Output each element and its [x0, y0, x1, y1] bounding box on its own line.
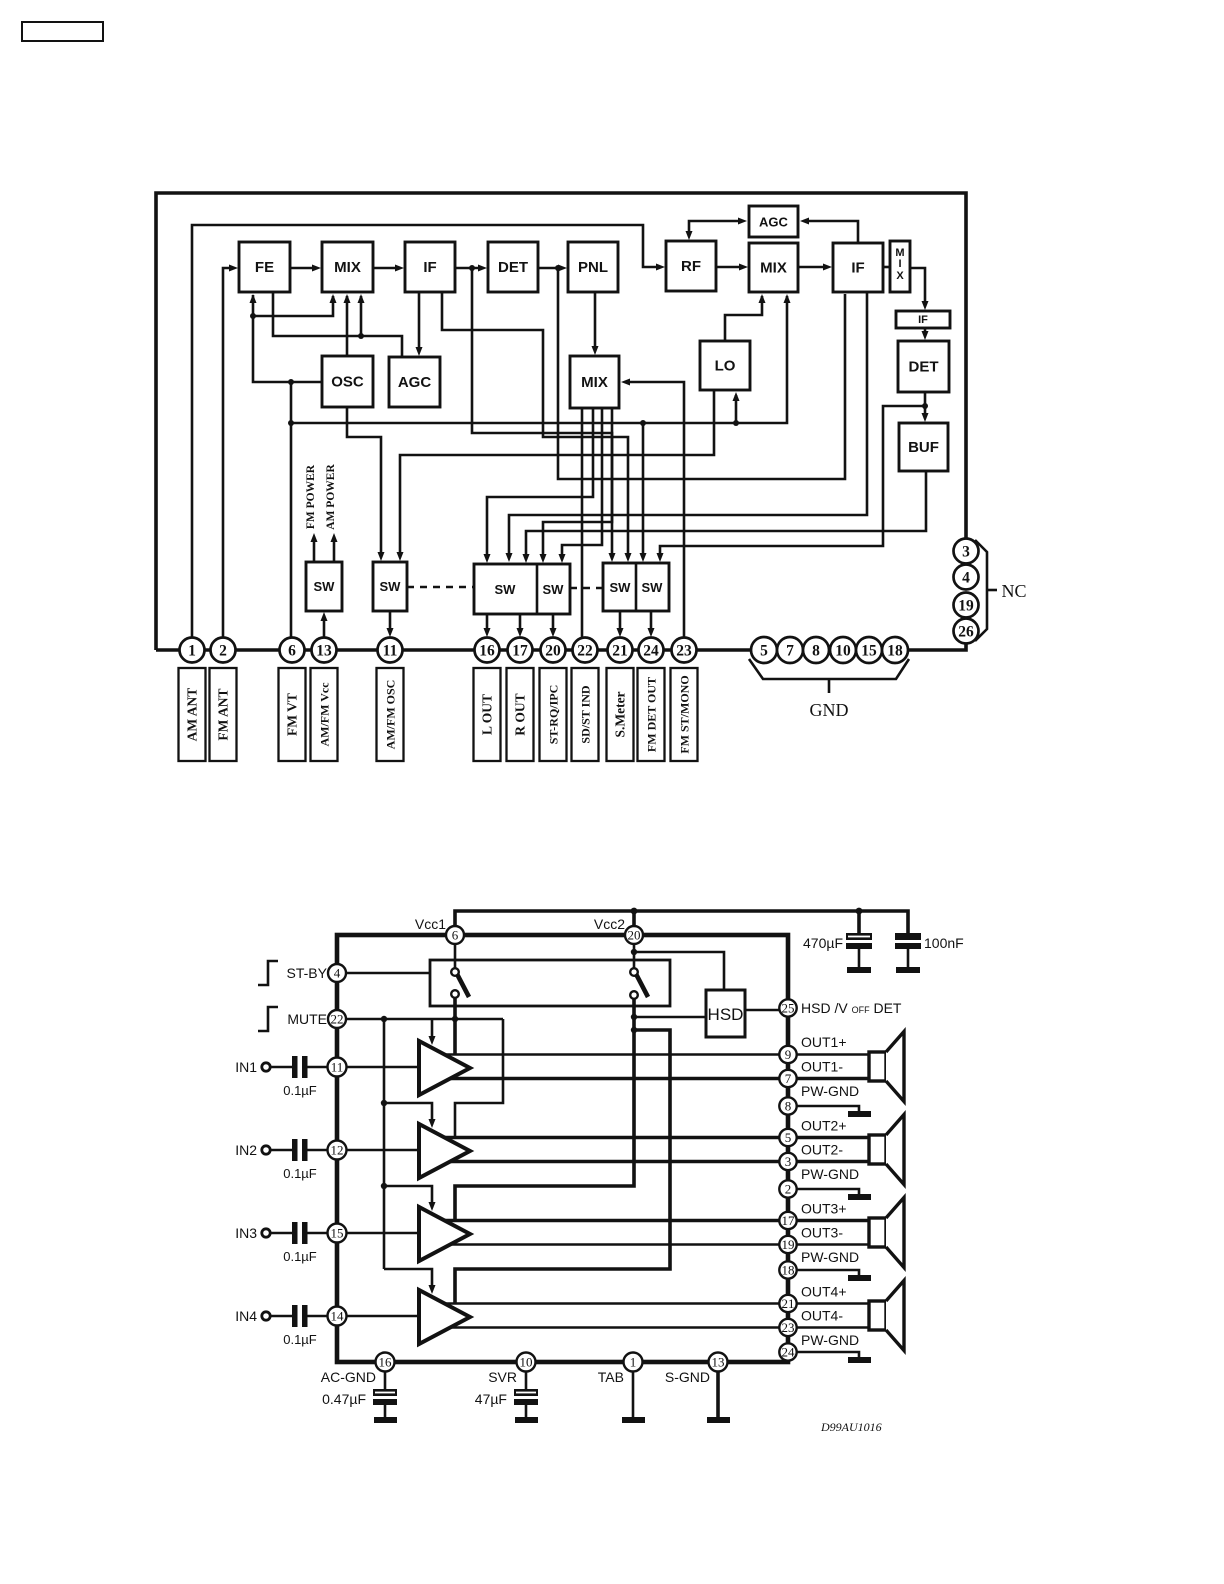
svg-text:IF: IF — [851, 260, 864, 277]
svg-text:0.1µF: 0.1µF — [283, 1332, 317, 1347]
wire stage step to amp2 — [455, 1019, 503, 1138]
wire pin to speaker 1 minus — [797, 1077, 871, 1081]
wire MIX4 bottom 3 to SW3 — [559, 408, 603, 563]
pin 11 — [378, 638, 403, 663]
S-GND ground — [707, 1371, 730, 1423]
svg-text:470µF: 470µF — [803, 935, 843, 951]
svg-text:IN2: IN2 — [235, 1142, 257, 1158]
op-amp A2 — [419, 1124, 470, 1178]
pin 11 — [328, 1058, 347, 1077]
wire ST-BY to switch box — [346, 972, 430, 975]
svg-text:IF: IF — [918, 314, 928, 326]
pin 20 — [541, 638, 566, 663]
svg-text:FM ANT: FM ANT — [216, 688, 231, 740]
svg-text:6: 6 — [452, 928, 459, 943]
supply rail Vcc — [455, 908, 908, 933]
block OSC — [322, 356, 373, 407]
svg-text:PW-GND: PW-GND — [801, 1166, 859, 1182]
svg-text:13: 13 — [316, 643, 332, 660]
wire SW3 to pin16 — [484, 614, 491, 637]
svg-text:AGC: AGC — [398, 374, 432, 391]
wire IF1 to DET1 with junction — [455, 265, 487, 272]
wire OUT1+ — [444, 1053, 780, 1056]
svg-text:HSD /V OFF DET: HSD /V OFF DET — [801, 1000, 902, 1016]
capacitor 0.1uF input 1 — [283, 1056, 328, 1098]
capacitor 100nF — [895, 933, 921, 973]
wire pin1 AM ANT to RF input — [192, 225, 665, 640]
HSD block — [706, 990, 745, 1037]
svg-text:PW-GND: PW-GND — [801, 1332, 859, 1348]
wire input pin to amp3 — [347, 1232, 420, 1235]
wire OUT3- — [450, 1243, 780, 1246]
svg-text:4: 4 — [334, 966, 341, 981]
wire SW3 to pin17 — [517, 614, 524, 637]
pin label R OUT — [507, 668, 534, 761]
wire to HSD top — [631, 949, 724, 990]
pin 13 — [709, 1353, 728, 1372]
pin label FM DET OUT — [638, 668, 665, 761]
mute tap arrow amp4 — [384, 1269, 436, 1294]
pin 5 (GND) — [751, 637, 777, 663]
wire pin to speaker 3 plus — [797, 1219, 871, 1223]
svg-text:20: 20 — [545, 643, 561, 660]
pin label L OUT — [474, 668, 501, 761]
ST-BY input symbol — [258, 961, 278, 985]
pin 18 (GND) — [882, 637, 908, 663]
svg-text:FM DET OUT: FM DET OUT — [645, 677, 659, 752]
wire SW4 to pin24 — [648, 611, 655, 637]
svg-text:BUF: BUF — [908, 439, 939, 456]
svg-text:19: 19 — [958, 598, 974, 615]
svg-text:RF: RF — [681, 258, 701, 275]
NC bracket — [975, 540, 997, 641]
wire SW4 to pin21 — [617, 611, 624, 637]
svg-text:IN4: IN4 — [235, 1308, 257, 1324]
pin 8 — [779, 1097, 796, 1114]
op-amp A4 — [419, 1290, 470, 1344]
wire RF to MIX2 — [716, 264, 748, 271]
block LO — [700, 341, 750, 390]
capacitor 0.1uF input 4 — [283, 1305, 328, 1347]
svg-text:15: 15 — [331, 1226, 344, 1241]
svg-text:SD/ST IND: SD/ST IND — [579, 685, 593, 743]
dashed link SW3 to SW4 — [570, 587, 603, 590]
svg-text:GND: GND — [810, 700, 849, 720]
svg-text:OSC: OSC — [331, 374, 364, 391]
svg-text:2: 2 — [219, 643, 227, 660]
svg-text:MIX: MIX — [334, 259, 361, 276]
block IF3 small — [896, 311, 950, 328]
wire input pin to amp1 — [347, 1066, 420, 1069]
capacitor 0.47uF — [373, 1371, 397, 1423]
svg-text:5: 5 — [760, 643, 768, 660]
svg-text:MUTE: MUTE — [287, 1011, 327, 1027]
wire IF1 bottom to AGC1 — [416, 292, 423, 356]
pin 17 — [779, 1212, 796, 1229]
wire MIX1 to IF1 — [373, 265, 404, 272]
wire OUT4+ — [444, 1302, 780, 1305]
speaker 1 — [869, 1032, 904, 1102]
wire DET2 to BUF with junction — [922, 392, 929, 422]
pin 6 — [280, 638, 305, 663]
svg-text:18: 18 — [782, 1263, 795, 1278]
svg-text:11: 11 — [383, 643, 398, 660]
wire pin6 FM VT up to OSC rail — [288, 382, 294, 640]
svg-text:ST-BY: ST-BY — [287, 965, 328, 981]
switch SW3 double cell — [474, 564, 570, 614]
svg-text:1: 1 — [630, 1355, 637, 1370]
capacitor 0.1uF input 2 — [283, 1139, 328, 1181]
svg-text:OUT1+: OUT1+ — [801, 1034, 847, 1050]
pin 1 — [624, 1353, 643, 1372]
wire FE bottom right to AGC1 top — [273, 292, 402, 357]
wire IF2 top to AGC2 right — [800, 218, 858, 244]
header label box (empty) — [22, 22, 103, 41]
wire pin13 to SW1 — [321, 612, 328, 640]
svg-text:R OUT: R OUT — [513, 693, 528, 735]
svg-text:24: 24 — [643, 643, 659, 660]
block IF2 — [833, 243, 883, 292]
svg-text:47µF: 47µF — [475, 1391, 507, 1407]
wire AGC2 left loop to RF top — [686, 218, 748, 241]
power ground stub — [797, 1270, 871, 1281]
svg-text:MIX: MIX — [760, 260, 787, 277]
pin 15 (GND) — [856, 637, 882, 663]
pin 18 — [779, 1261, 796, 1278]
pin 23 — [672, 638, 697, 663]
pin 17 — [508, 638, 533, 663]
svg-text:SW: SW — [314, 579, 336, 594]
pin 15 — [328, 1224, 347, 1243]
wire MIX4 bottom 1 to pin22 SD/ST IND — [581, 408, 584, 638]
svg-text:0.1µF: 0.1µF — [283, 1083, 317, 1098]
block MIX2 — [749, 243, 798, 292]
svg-text:PW-GND: PW-GND — [801, 1249, 859, 1265]
wire FE to MIX1 — [290, 265, 321, 272]
mute tap arrow amp3 — [384, 1186, 436, 1211]
input terminal IN1 — [235, 1059, 292, 1075]
pin label S.Meter — [607, 668, 634, 761]
pin 21 — [608, 638, 633, 663]
svg-text:8: 8 — [785, 1099, 792, 1114]
pin 24 — [639, 638, 664, 663]
wire pin to speaker 2 plus — [797, 1136, 871, 1140]
svg-text:1: 1 — [188, 643, 196, 660]
pin 5 — [779, 1129, 796, 1146]
pin label ST-RQ/IPC — [540, 668, 567, 761]
block MIX4 center — [570, 356, 619, 408]
pin label AM ANT — [179, 668, 206, 761]
wire MIX2 to IF2 — [798, 264, 832, 271]
pin 21 — [779, 1295, 796, 1312]
wire MIX1 bottom to OSC top — [344, 294, 351, 356]
wire to HSD left — [634, 1016, 706, 1019]
pin 25 — [779, 999, 796, 1016]
wire IF1 junction to SW4 — [472, 268, 616, 562]
svg-text:AC-GND: AC-GND — [321, 1369, 376, 1385]
pin 6 — [446, 926, 464, 944]
wire input pin to amp4 — [347, 1315, 420, 1318]
svg-text:3: 3 — [962, 544, 970, 561]
pin 9 — [779, 1046, 796, 1063]
svg-text:16: 16 — [379, 1355, 393, 1370]
svg-text:DET: DET — [909, 359, 939, 376]
speaker 2 — [869, 1115, 904, 1185]
svg-text:OUT2-: OUT2- — [801, 1142, 843, 1158]
block AGC1 — [389, 357, 440, 407]
svg-text:24: 24 — [782, 1345, 796, 1360]
GND brace — [749, 659, 909, 693]
svg-text:NC: NC — [1001, 581, 1026, 601]
wire MIX3 out to IF3 — [910, 268, 929, 310]
wire pin to speaker 4 minus — [797, 1326, 871, 1329]
svg-text:SW: SW — [610, 580, 632, 595]
pin 22 — [573, 638, 598, 663]
wire OUT4- — [450, 1326, 780, 1329]
svg-text:SVR: SVR — [488, 1369, 517, 1385]
wire BUF output to SW3 — [523, 471, 927, 563]
svg-text:16: 16 — [479, 643, 495, 660]
block AGC2 — [749, 206, 798, 237]
pin 3 (NC) — [954, 539, 979, 564]
AM POWER output arrow — [331, 533, 338, 562]
wire PNL to MIX4 — [592, 292, 599, 355]
svg-text:OUT3-: OUT3- — [801, 1225, 843, 1241]
pin 12 — [328, 1141, 347, 1160]
svg-text:10: 10 — [835, 643, 851, 660]
TAB ground — [622, 1371, 645, 1423]
power ground stub — [797, 1189, 871, 1200]
pin 24 — [779, 1343, 796, 1360]
wire OUT2+ — [444, 1136, 780, 1140]
svg-text:FE: FE — [255, 259, 274, 276]
wire SW2 to pin11 — [387, 611, 394, 637]
svg-text:12: 12 — [331, 1143, 344, 1158]
svg-text:LO: LO — [715, 358, 736, 375]
mute rail — [381, 1019, 387, 1269]
wire IF1 bottom to SW4 — [442, 292, 632, 562]
switch lever 2 — [630, 944, 648, 999]
pin 4 — [328, 964, 346, 982]
wire OSC bottom to SW2 top left — [347, 407, 385, 561]
pin 10 (GND) — [830, 637, 856, 663]
svg-text:0.1µF: 0.1µF — [283, 1166, 317, 1181]
svg-text:14: 14 — [331, 1309, 345, 1324]
wire pin to speaker 4 plus — [797, 1302, 871, 1305]
pin 7 — [779, 1070, 796, 1087]
svg-text:0.1µF: 0.1µF — [283, 1249, 317, 1264]
pin 4 (NC) — [954, 565, 979, 590]
op-amp A1 — [419, 1041, 470, 1095]
svg-text:AM/FM Vcc: AM/FM Vcc — [318, 682, 332, 747]
svg-text:FM VT: FM VT — [285, 693, 300, 736]
svg-text:23: 23 — [676, 643, 692, 660]
wire MIX4 bottom 4 to SW3 — [540, 408, 613, 563]
svg-text:OUT2+: OUT2+ — [801, 1118, 847, 1134]
pin 19 (NC) — [954, 593, 979, 618]
svg-text:20: 20 — [628, 928, 641, 943]
pin label AM/FM OSC — [377, 668, 404, 761]
svg-text:AM ANT: AM ANT — [185, 688, 200, 742]
svg-text:ST-RQ/IPC: ST-RQ/IPC — [547, 685, 561, 745]
svg-text:21: 21 — [612, 643, 628, 660]
svg-text:19: 19 — [782, 1237, 795, 1252]
IC boundary rectangle (tuner block diagram) — [156, 193, 966, 650]
wire FE bottom to OSC left with junctions — [250, 294, 323, 385]
svg-text:L OUT: L OUT — [480, 694, 495, 735]
pin 26 (NC) — [954, 619, 979, 644]
speaker 3 — [869, 1198, 904, 1268]
svg-text:17: 17 — [512, 643, 528, 660]
pin 10 — [517, 1353, 536, 1372]
wire OUT1- — [450, 1077, 780, 1081]
svg-text:17: 17 — [782, 1213, 796, 1228]
svg-text:AGC: AGC — [759, 215, 789, 230]
wire LO top to MIX2 bottom — [725, 294, 766, 341]
svg-text:PNL: PNL — [578, 259, 608, 276]
wire SW3 to pin20 — [550, 614, 557, 637]
svg-text:SW: SW — [380, 579, 402, 594]
wire OUT2- — [450, 1160, 780, 1164]
svg-text:3: 3 — [785, 1154, 792, 1169]
wire switch2 branch to amp4 — [455, 1030, 670, 1304]
block BUF — [899, 423, 948, 471]
svg-text:MIX: MIX — [581, 374, 608, 391]
svg-text:OUT3+: OUT3+ — [801, 1201, 847, 1217]
block DET2 — [898, 341, 949, 392]
switch box — [430, 960, 670, 1006]
svg-text:26: 26 — [958, 624, 974, 641]
wire pin2 FM ANT to FE input — [223, 265, 238, 641]
svg-text:4: 4 — [962, 570, 970, 587]
svg-text:2: 2 — [785, 1182, 792, 1197]
svg-text:IN3: IN3 — [235, 1225, 257, 1241]
svg-text:I: I — [898, 258, 901, 270]
block FE — [239, 242, 290, 292]
op-amp A3 — [419, 1207, 470, 1261]
switch SW2 — [373, 562, 407, 611]
input terminal IN4 — [235, 1308, 292, 1324]
mute tap arrow amp2 — [384, 1103, 436, 1128]
svg-text:5: 5 — [785, 1130, 792, 1145]
power ground stub — [797, 1352, 871, 1363]
capacitor 47uF — [514, 1371, 538, 1423]
wire MIX1 bottom right stub — [358, 294, 365, 336]
svg-text:X: X — [896, 270, 904, 282]
wire pin23 FM ST/MONO to MIX4 right — [621, 379, 684, 641]
pin 16 — [376, 1353, 395, 1372]
svg-text:SW: SW — [495, 582, 517, 597]
svg-text:22: 22 — [331, 1012, 344, 1027]
svg-text:OUT4-: OUT4- — [801, 1308, 843, 1324]
pin 8 (GND) — [803, 637, 829, 663]
wire DET2 output to SW4 right cell — [657, 406, 926, 562]
svg-text:100nF: 100nF — [924, 935, 964, 951]
pin 19 — [779, 1236, 796, 1253]
svg-text:9: 9 — [785, 1047, 792, 1062]
svg-text:SW: SW — [543, 582, 565, 597]
svg-text:21: 21 — [782, 1296, 795, 1311]
switch lever 1 — [451, 944, 469, 998]
svg-text:DET: DET — [498, 259, 528, 276]
input terminal IN2 — [235, 1142, 292, 1158]
MUTE input symbol — [258, 1007, 278, 1031]
block RF — [666, 241, 716, 291]
svg-text:TAB: TAB — [598, 1369, 624, 1385]
speaker 4 — [869, 1281, 904, 1351]
svg-text:IN1: IN1 — [235, 1059, 257, 1075]
wire IF2 bottom to SW3 — [506, 292, 868, 562]
svg-text:6: 6 — [288, 643, 296, 660]
mute tap arrow amp1 — [429, 1019, 436, 1045]
amplifier IC boundary — [337, 935, 788, 1362]
svg-text:OUT1-: OUT1- — [801, 1059, 843, 1075]
svg-text:Vcc1: Vcc1 — [415, 916, 446, 932]
wire DET1 junction to IF2 bottom left — [558, 268, 845, 479]
svg-text:SW: SW — [642, 580, 664, 595]
wire IF3 to DET2 — [922, 328, 929, 340]
wire FE junction to MIX1 bottom left — [253, 294, 337, 316]
block DET1 — [488, 242, 538, 292]
switch SW4 double cell — [603, 563, 669, 611]
svg-text:AM/FM OSC: AM/FM OSC — [384, 680, 398, 750]
power ground stub — [797, 1106, 871, 1117]
svg-text:7: 7 — [786, 643, 794, 660]
wire LO bottom to SW2 top — [397, 390, 715, 561]
pin 14 — [328, 1307, 347, 1326]
capacitor 0.1uF input 3 — [283, 1222, 328, 1264]
pin 23 — [779, 1319, 796, 1336]
pin label FM VT — [279, 668, 306, 761]
dashed link SW2 to SW3 — [407, 586, 474, 589]
block IF1 — [405, 242, 455, 292]
svg-text:OUT4+: OUT4+ — [801, 1284, 847, 1300]
block MIX3 narrow — [890, 241, 910, 292]
pin 3 — [779, 1153, 796, 1170]
svg-text:HSD: HSD — [708, 1005, 744, 1024]
wire switch2 rail to amp3 — [455, 999, 637, 1221]
svg-text:S.Meter: S.Meter — [613, 691, 628, 737]
svg-text:23: 23 — [782, 1320, 795, 1335]
wire MUTE line — [346, 1016, 503, 1022]
wire input pin to amp2 — [347, 1149, 420, 1152]
wire long rail to MIX2 bottom and LO bottom — [291, 294, 791, 426]
pin label SD/ST IND — [572, 668, 599, 761]
svg-text:18: 18 — [887, 643, 903, 660]
wire MIX4 bottom 2 to SW3 — [484, 408, 594, 563]
pin 16 — [475, 638, 500, 663]
svg-text:FM POWER: FM POWER — [305, 464, 317, 529]
svg-text:0.47µF: 0.47µF — [322, 1391, 366, 1407]
input terminal IN3 — [235, 1225, 292, 1241]
pin label FM ST/MONO — [671, 668, 698, 761]
wire IF2 to MIX3 — [883, 266, 890, 269]
wire switch1 rail down — [453, 998, 457, 1055]
svg-text:15: 15 — [861, 643, 877, 660]
wire OUT3+ — [444, 1219, 780, 1223]
svg-text:22: 22 — [577, 643, 593, 660]
pin 7 (GND) — [777, 637, 803, 663]
pin 22 — [328, 1010, 346, 1028]
pin 2 — [779, 1180, 796, 1197]
pin label FM ANT — [210, 668, 237, 761]
svg-text:PW-GND: PW-GND — [801, 1083, 859, 1099]
svg-text:D99AU1016: D99AU1016 — [820, 1420, 882, 1434]
svg-text:S-GND: S-GND — [665, 1369, 710, 1385]
pin 2 — [211, 638, 236, 663]
switch SW1 — [306, 562, 342, 611]
pin label AM/FM Vcc — [311, 668, 338, 761]
